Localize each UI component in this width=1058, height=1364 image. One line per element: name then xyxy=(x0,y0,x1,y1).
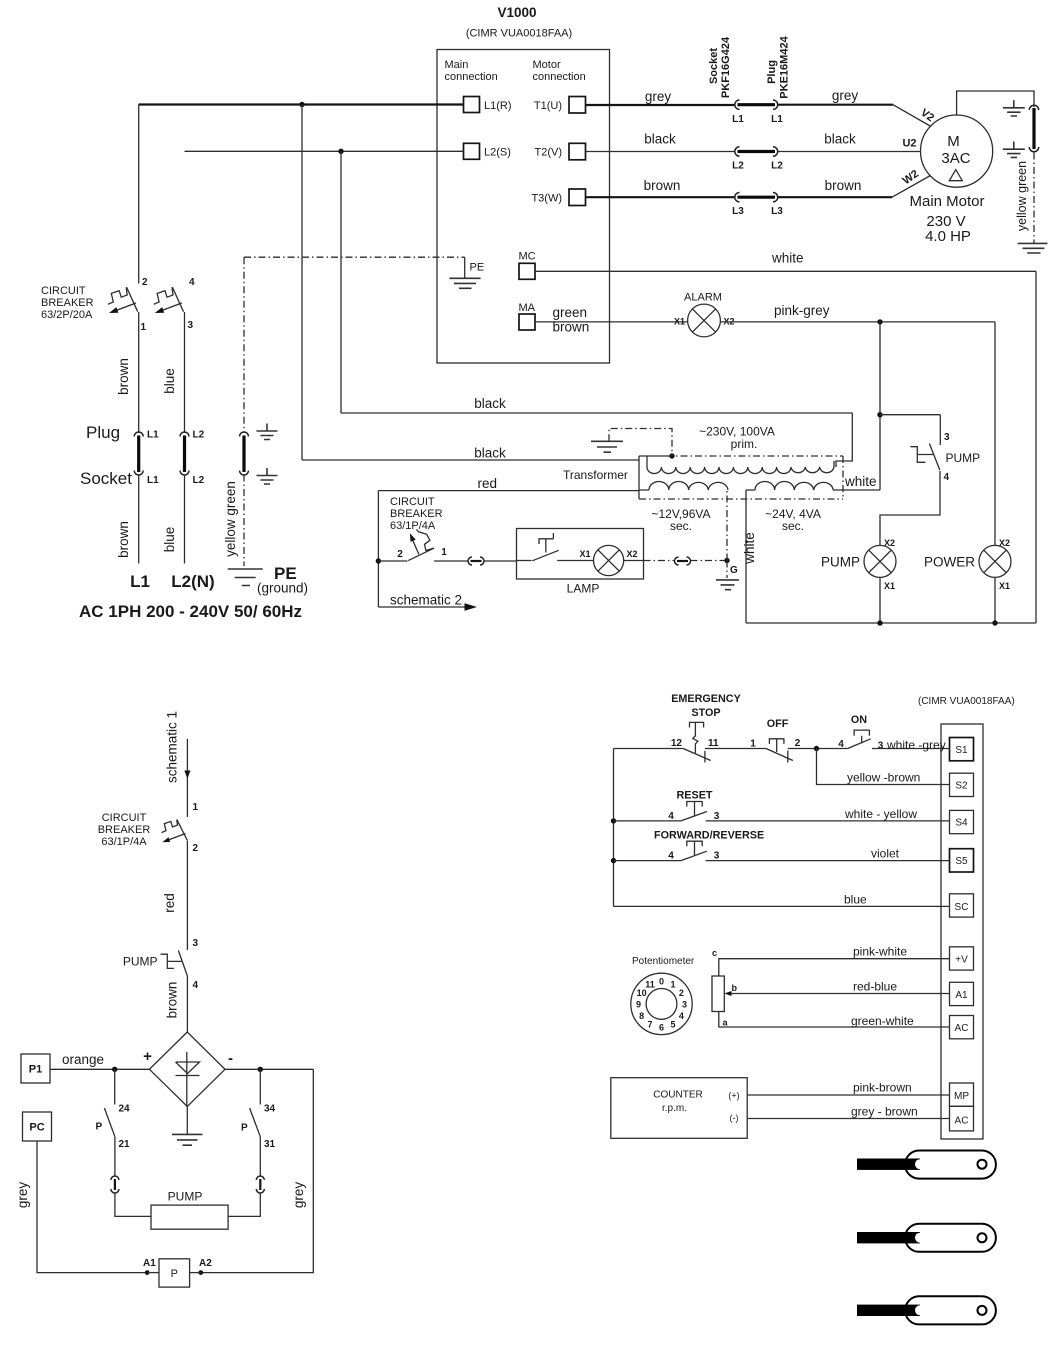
wire white secondary down xyxy=(745,490,747,623)
wire rectifier ground stem xyxy=(186,1107,188,1135)
svg-text:CIRCUIT: CIRCUIT xyxy=(41,285,86,297)
svg-text:2: 2 xyxy=(193,843,199,854)
terminal AC2 xyxy=(950,1106,974,1131)
svg-text:1: 1 xyxy=(670,980,675,990)
svg-text:black: black xyxy=(474,446,506,461)
wire S5 into terminal xyxy=(706,860,950,862)
node junction orange branch xyxy=(112,1067,117,1072)
wire PE yellow-green dashdot upper xyxy=(243,257,245,433)
wire T2 black left xyxy=(586,151,736,153)
svg-text:sec.: sec. xyxy=(670,519,692,533)
svg-text:green-white: green-white xyxy=(851,1014,914,1028)
wire MA green-brown xyxy=(535,321,688,323)
svg-text:11: 11 xyxy=(708,738,719,749)
svg-text:L2: L2 xyxy=(193,475,205,486)
wire T2 black right xyxy=(778,151,921,153)
arrow wiper xyxy=(724,991,731,996)
wire to pump motor left xyxy=(115,1193,151,1217)
motor M1 circle xyxy=(921,115,993,187)
svg-text:L1: L1 xyxy=(732,114,744,125)
svg-text:S5: S5 xyxy=(955,856,968,867)
svg-text:blue: blue xyxy=(844,893,867,907)
svg-text:pink-grey: pink-grey xyxy=(774,303,830,318)
svg-text:34: 34 xyxy=(264,1104,276,1115)
svg-text:L1: L1 xyxy=(771,114,783,125)
connector motor plug L3 xyxy=(735,193,778,202)
node junction S4 rail xyxy=(611,818,616,823)
wire pink-grey xyxy=(720,321,995,323)
svg-text:2: 2 xyxy=(679,988,684,998)
terminal T1(U) xyxy=(569,97,586,114)
svg-text:AC 1PH 200 - 240V 50/ 60Hz: AC 1PH 200 - 240V 50/ 60Hz xyxy=(79,602,302,621)
terminal +V xyxy=(950,947,974,970)
wire T3 brown left xyxy=(586,196,736,198)
svg-text:c: c xyxy=(712,948,717,958)
svg-text:CIRCUIT: CIRCUIT xyxy=(102,812,147,824)
wire lamp feed left xyxy=(378,560,407,562)
potentiometer resistor body xyxy=(712,976,724,1012)
svg-text:63/2P/20A: 63/2P/20A xyxy=(41,309,93,321)
svg-text:BREAKER: BREAKER xyxy=(390,508,443,520)
svg-text:white: white xyxy=(771,251,804,266)
svg-text:X1: X1 xyxy=(884,581,895,591)
svg-text:4: 4 xyxy=(668,851,674,862)
wire black lower to transformer xyxy=(302,459,639,461)
wire line1 brown upper xyxy=(138,105,140,284)
svg-text:grey - brown: grey - brown xyxy=(851,1105,918,1119)
wire dashdot G down xyxy=(726,561,728,579)
node junction power lamp rail xyxy=(992,620,997,625)
switch RESET NO xyxy=(681,802,707,821)
ground plug PE motor side lower xyxy=(1003,142,1025,158)
svg-text:63/1P/4A: 63/1P/4A xyxy=(101,836,147,848)
terminal T2(V) xyxy=(569,143,586,160)
symbol delta winding xyxy=(949,170,962,181)
svg-text:L3: L3 xyxy=(732,206,744,217)
svg-text:P: P xyxy=(241,1123,248,1134)
wire MP row xyxy=(747,1094,949,1096)
svg-text:(+): (+) xyxy=(728,1091,739,1101)
wire S2 branch xyxy=(817,749,950,785)
svg-text:A1: A1 xyxy=(143,1258,156,1269)
node A1 xyxy=(145,1270,150,1275)
svg-text:X1: X1 xyxy=(999,581,1010,591)
wire motor PE top xyxy=(957,91,1034,115)
wire after breaker2 xyxy=(434,560,468,562)
svg-text:MC: MC xyxy=(519,251,536,263)
terminal S2 xyxy=(950,773,974,796)
svg-text:Potentiometer: Potentiometer xyxy=(632,956,695,967)
svg-text:POWER: POWER xyxy=(924,555,975,570)
switch P contact right xyxy=(250,1108,261,1137)
connector motor PE vertical xyxy=(1029,105,1038,151)
terminal MP xyxy=(950,1083,974,1106)
lamp ALARM xyxy=(688,304,721,337)
svg-text:BREAKER: BREAKER xyxy=(98,824,151,836)
svg-text:schematic 1: schematic 1 xyxy=(165,711,180,783)
wire bottom rail xyxy=(746,622,1036,624)
key symbol 1 xyxy=(857,1151,996,1179)
svg-text:4: 4 xyxy=(189,277,195,288)
svg-text:RESET: RESET xyxy=(677,790,713,802)
node A2 xyxy=(198,1270,203,1275)
svg-text:U2: U2 xyxy=(902,138,916,150)
svg-text:L3: L3 xyxy=(771,206,783,217)
svg-text:L1: L1 xyxy=(147,430,159,441)
terminal T3(W) xyxy=(569,189,586,206)
wire brown to rectifier xyxy=(186,976,188,1033)
svg-text:T1(U): T1(U) xyxy=(534,100,562,112)
ground plug PE motor side upper xyxy=(1003,100,1025,116)
svg-text:PUMP: PUMP xyxy=(821,555,860,570)
svg-text:Transformer: Transformer xyxy=(563,468,628,482)
svg-text:PKE16M424: PKE16M424 xyxy=(779,35,791,98)
svg-text:+V: +V xyxy=(955,955,968,966)
wire PE drop xyxy=(464,257,466,278)
svg-text:Socket: Socket xyxy=(708,48,720,84)
svg-text:A2: A2 xyxy=(199,1258,212,1269)
transformer T1 core box xyxy=(639,456,843,499)
svg-text:1: 1 xyxy=(141,322,147,333)
svg-text:9: 9 xyxy=(636,999,641,1009)
wire T3 brown right xyxy=(778,196,893,198)
wire dashdot lamp out xyxy=(644,560,675,562)
svg-text:6: 6 xyxy=(659,1022,664,1032)
svg-text:Plug: Plug xyxy=(86,423,120,442)
diode inside rectifier xyxy=(176,1052,200,1107)
wire line2 blue bottom xyxy=(184,475,186,564)
wire b wiper to A1 xyxy=(729,993,950,995)
svg-text:black: black xyxy=(644,132,676,147)
terminal S4 xyxy=(950,810,974,833)
svg-text:blue: blue xyxy=(162,527,177,553)
svg-text:grey: grey xyxy=(291,1182,306,1209)
winding secondary 12V xyxy=(639,482,728,491)
wire line1 brown lower xyxy=(138,312,140,433)
svg-text:3AC: 3AC xyxy=(941,150,970,167)
svg-text:violet: violet xyxy=(871,847,900,861)
svg-text:3: 3 xyxy=(878,741,884,752)
node G junction xyxy=(724,558,729,563)
svg-text:T2(V): T2(V) xyxy=(535,147,563,159)
svg-text:L2(N): L2(N) xyxy=(171,572,214,591)
wire AC2 row xyxy=(747,1118,949,1120)
svg-text:brown: brown xyxy=(116,521,131,558)
wire black upper to transformer xyxy=(341,412,852,414)
svg-text:P: P xyxy=(171,1268,178,1280)
node junction pump switch feed xyxy=(877,412,882,417)
lamp POWER xyxy=(979,545,1011,577)
svg-text:2: 2 xyxy=(397,549,403,560)
relay coil P box xyxy=(159,1259,190,1287)
svg-text:V1000: V1000 xyxy=(497,5,536,20)
svg-text:L1: L1 xyxy=(147,475,159,486)
svg-text:4: 4 xyxy=(838,739,844,750)
terminal box PC xyxy=(23,1112,52,1141)
wire P contact 24 branch xyxy=(114,1069,116,1104)
terminal MA xyxy=(519,314,535,330)
switch P contact left xyxy=(104,1108,115,1137)
svg-text:L1: L1 xyxy=(130,572,150,591)
svg-text:white: white xyxy=(742,532,757,565)
pump motor box xyxy=(151,1205,228,1229)
svg-text:S1: S1 xyxy=(955,745,968,756)
svg-text:+: + xyxy=(143,1048,152,1065)
wire yellow green motor dashdot xyxy=(1033,153,1035,244)
wire line2 blue lower xyxy=(184,312,186,433)
connector inline lamp right xyxy=(675,557,691,565)
svg-text:PUMP: PUMP xyxy=(946,451,981,465)
svg-text:ON: ON xyxy=(851,714,867,726)
svg-text:STOP: STOP xyxy=(691,707,720,719)
svg-text:4: 4 xyxy=(679,1011,684,1021)
svg-text:AC: AC xyxy=(955,1023,969,1034)
svg-text:X2: X2 xyxy=(627,549,638,559)
wire schematic1 feed xyxy=(186,739,188,817)
svg-text:S4: S4 xyxy=(955,818,968,829)
svg-text:(ground): (ground) xyxy=(257,581,308,596)
svg-text:grey: grey xyxy=(832,88,859,103)
ground motor PE xyxy=(1018,243,1048,253)
svg-text:4: 4 xyxy=(193,980,199,991)
switch EMERGENCY STOP NC xyxy=(683,722,711,762)
svg-text:X1: X1 xyxy=(674,317,685,327)
terminal SC xyxy=(950,894,974,917)
wire lamp to box edge xyxy=(624,560,644,562)
svg-text:(CIMR VUA0018FAA): (CIMR VUA0018FAA) xyxy=(918,696,1015,707)
ground rectifier xyxy=(172,1134,203,1145)
svg-text:yellow green: yellow green xyxy=(223,481,238,557)
wire minus rail right xyxy=(225,1068,313,1070)
wire pump branch vertical xyxy=(879,322,881,490)
svg-text:A1: A1 xyxy=(955,990,968,1001)
control terminal strip box xyxy=(941,724,983,1139)
node junction S2 branch xyxy=(814,746,819,751)
svg-text:3: 3 xyxy=(188,320,194,331)
svg-text:black: black xyxy=(824,132,856,147)
wire right grey rail xyxy=(201,1069,313,1272)
node junction L2-black xyxy=(338,149,343,154)
svg-text:L2: L2 xyxy=(193,430,205,441)
wire S1 into terminal xyxy=(872,748,950,750)
wire line1 brown bottom xyxy=(138,475,140,564)
breaker Q1 pole 1 contact xyxy=(108,287,138,313)
svg-text:1: 1 xyxy=(441,547,447,558)
svg-text:PE: PE xyxy=(470,262,485,274)
wire right rail down xyxy=(1035,271,1037,623)
node junction L1-black xyxy=(299,102,304,107)
wire PE yellow-green dashdot lower xyxy=(243,475,245,567)
svg-text:FORWARD/REVERSE: FORWARD/REVERSE xyxy=(654,830,764,842)
svg-text:Plug: Plug xyxy=(766,60,778,84)
wire power lamp feed xyxy=(994,322,996,546)
node junction minus branch xyxy=(258,1067,263,1072)
svg-text:PKF16G424: PKF16G424 xyxy=(720,36,732,98)
wire 31 down xyxy=(259,1137,261,1176)
terminal MC xyxy=(519,263,535,279)
svg-text:L2(S): L2(S) xyxy=(484,147,511,159)
wire c to +V xyxy=(719,959,950,976)
svg-text:schematic 2: schematic 2 xyxy=(390,593,462,608)
svg-text:PUMP: PUMP xyxy=(168,1190,203,1204)
svg-text:CIRCUIT: CIRCUIT xyxy=(390,496,435,508)
node junction schematic2 xyxy=(376,558,381,563)
svg-text:yellow -brown: yellow -brown xyxy=(847,771,920,785)
wire schematic2 arrow xyxy=(378,606,465,608)
switch PUMP pressure schematic1 xyxy=(161,951,188,976)
svg-text:2: 2 xyxy=(142,277,148,288)
connector plug-socket L1 vertical xyxy=(134,432,143,475)
svg-text:brown: brown xyxy=(116,358,131,395)
svg-text:brown: brown xyxy=(825,178,862,193)
svg-text:L2: L2 xyxy=(732,161,744,172)
wire S4 row left xyxy=(614,820,681,822)
svg-text:4: 4 xyxy=(668,811,674,822)
wire S5 row left xyxy=(614,860,681,862)
breaker Q3 63/1P/4A contact xyxy=(162,820,188,843)
switch ON NO xyxy=(848,730,871,748)
svg-text:b: b xyxy=(732,983,738,993)
wire 24V right to pump branch xyxy=(833,489,880,491)
wire dashdot to node G xyxy=(691,560,728,562)
svg-text:L2: L2 xyxy=(771,161,783,172)
svg-text:red-blue: red-blue xyxy=(853,980,897,994)
wire T1 grey right xyxy=(778,104,894,106)
svg-text:8: 8 xyxy=(639,1011,644,1021)
svg-text:green: green xyxy=(553,305,588,320)
svg-text:(CIMR VUA0018FAA): (CIMR VUA0018FAA) xyxy=(466,28,572,40)
svg-text:S2: S2 xyxy=(955,781,968,792)
node junction S5 rail xyxy=(611,858,616,863)
svg-text:0: 0 xyxy=(659,976,664,986)
ground socket PE stub xyxy=(257,468,278,484)
svg-text:24: 24 xyxy=(119,1104,131,1115)
svg-text:1: 1 xyxy=(193,802,199,813)
counter box xyxy=(611,1078,747,1139)
wire dashdot G up to 12V secondary xyxy=(726,491,728,561)
breaker Q1 pole 2 contact xyxy=(154,287,184,313)
svg-text:Socket: Socket xyxy=(80,469,132,488)
connector motor plug L2 xyxy=(735,147,778,156)
svg-text:G: G xyxy=(730,565,738,576)
svg-text:1: 1 xyxy=(750,739,756,750)
svg-text:black: black xyxy=(474,396,506,411)
svg-text:11: 11 xyxy=(645,980,655,990)
svg-text:(-): (-) xyxy=(730,1113,739,1123)
svg-text:blue: blue xyxy=(162,368,177,394)
svg-text:P1: P1 xyxy=(29,1064,42,1076)
ground PE inside inverter xyxy=(449,278,480,288)
wire to pump motor right xyxy=(228,1193,260,1217)
svg-text:orange: orange xyxy=(62,1052,104,1067)
switch OFF NC xyxy=(766,739,793,763)
svg-text:3: 3 xyxy=(944,432,950,443)
svg-text:SC: SC xyxy=(955,902,969,913)
switch PUMP pressure contact xyxy=(910,444,939,471)
wire L2 phase top xyxy=(185,150,464,152)
terminal AC xyxy=(950,1016,974,1039)
wire A2 stub xyxy=(190,1272,201,1274)
wire schematic2 left rail xyxy=(377,491,379,607)
terminal S1 xyxy=(950,738,974,761)
node junction pump lamp rail xyxy=(877,620,882,625)
svg-text:MP: MP xyxy=(954,1091,969,1102)
connector inline lamp left xyxy=(468,557,484,565)
svg-text:white: white xyxy=(844,474,877,489)
switch FORWARD/REVERSE NO xyxy=(681,841,707,860)
svg-text:COUNTER: COUNTER xyxy=(653,1090,702,1101)
svg-text:red: red xyxy=(162,893,177,913)
connector plug-socket PE vertical xyxy=(240,432,249,475)
ground G xyxy=(716,580,739,590)
wire W2 diagonal xyxy=(892,176,931,198)
svg-text:21: 21 xyxy=(119,1139,131,1150)
key symbol 3 xyxy=(857,1296,996,1324)
svg-text:Main: Main xyxy=(445,59,469,71)
wire primary right lead xyxy=(836,413,852,467)
wire pump lamp to rail xyxy=(879,577,881,623)
svg-text:2: 2 xyxy=(795,738,801,749)
svg-text:pink-brown: pink-brown xyxy=(853,1081,912,1095)
svg-text:3: 3 xyxy=(682,999,687,1009)
svg-text:brown: brown xyxy=(644,178,681,193)
wire S1 row left xyxy=(614,748,684,750)
svg-text:grey: grey xyxy=(15,1182,30,1209)
svg-text:LAMP: LAMP xyxy=(567,582,600,596)
svg-text:MA: MA xyxy=(519,302,536,314)
svg-text:Main Motor: Main Motor xyxy=(909,193,984,210)
wire black drop from L1 xyxy=(301,105,303,461)
wire S1 row mid1 xyxy=(705,748,766,750)
svg-text:white - yellow: white - yellow xyxy=(844,807,917,821)
lamp LAMP bulb xyxy=(594,545,624,575)
svg-text:-: - xyxy=(228,1050,233,1067)
potentiometer dial inner xyxy=(646,989,677,1020)
connector plug-socket L2 vertical xyxy=(180,432,189,475)
svg-text:sec.: sec. xyxy=(782,519,804,533)
svg-text:3: 3 xyxy=(714,851,720,862)
svg-text:BREAKER: BREAKER xyxy=(41,297,94,309)
potentiometer dial outer xyxy=(631,973,692,1034)
svg-text:PC: PC xyxy=(29,1122,44,1134)
svg-text:P: P xyxy=(96,1122,103,1133)
wire V2 diagonal xyxy=(893,105,931,127)
svg-text:grey: grey xyxy=(645,89,672,104)
svg-text:M: M xyxy=(947,133,960,150)
svg-text:EMERGENCY: EMERGENCY xyxy=(671,693,741,705)
svg-text:r.p.m.: r.p.m. xyxy=(662,1103,687,1114)
svg-text:yellow green: yellow green xyxy=(1015,161,1029,231)
svg-text:white -grey: white -grey xyxy=(886,738,946,752)
ground PE mains xyxy=(228,569,263,586)
svg-text:prim.: prim. xyxy=(731,437,758,451)
svg-text:red: red xyxy=(478,476,498,491)
wire orange xyxy=(50,1068,149,1070)
connector motor plug L1 xyxy=(735,100,778,109)
svg-text:brown: brown xyxy=(553,320,590,335)
svg-text:3: 3 xyxy=(193,938,199,949)
svg-text:pink-white: pink-white xyxy=(853,945,907,959)
svg-text:PUMP: PUMP xyxy=(123,955,158,969)
wire power lamp to rail xyxy=(994,577,996,623)
svg-text:ALARM: ALARM xyxy=(684,292,722,304)
key symbol 2 xyxy=(857,1224,996,1252)
wire into lamp box xyxy=(485,560,517,562)
svg-text:7: 7 xyxy=(647,1019,652,1029)
switch lamp pushbutton xyxy=(517,533,594,561)
svg-text:AC: AC xyxy=(955,1116,969,1127)
wire black drop from L2 xyxy=(340,151,342,413)
